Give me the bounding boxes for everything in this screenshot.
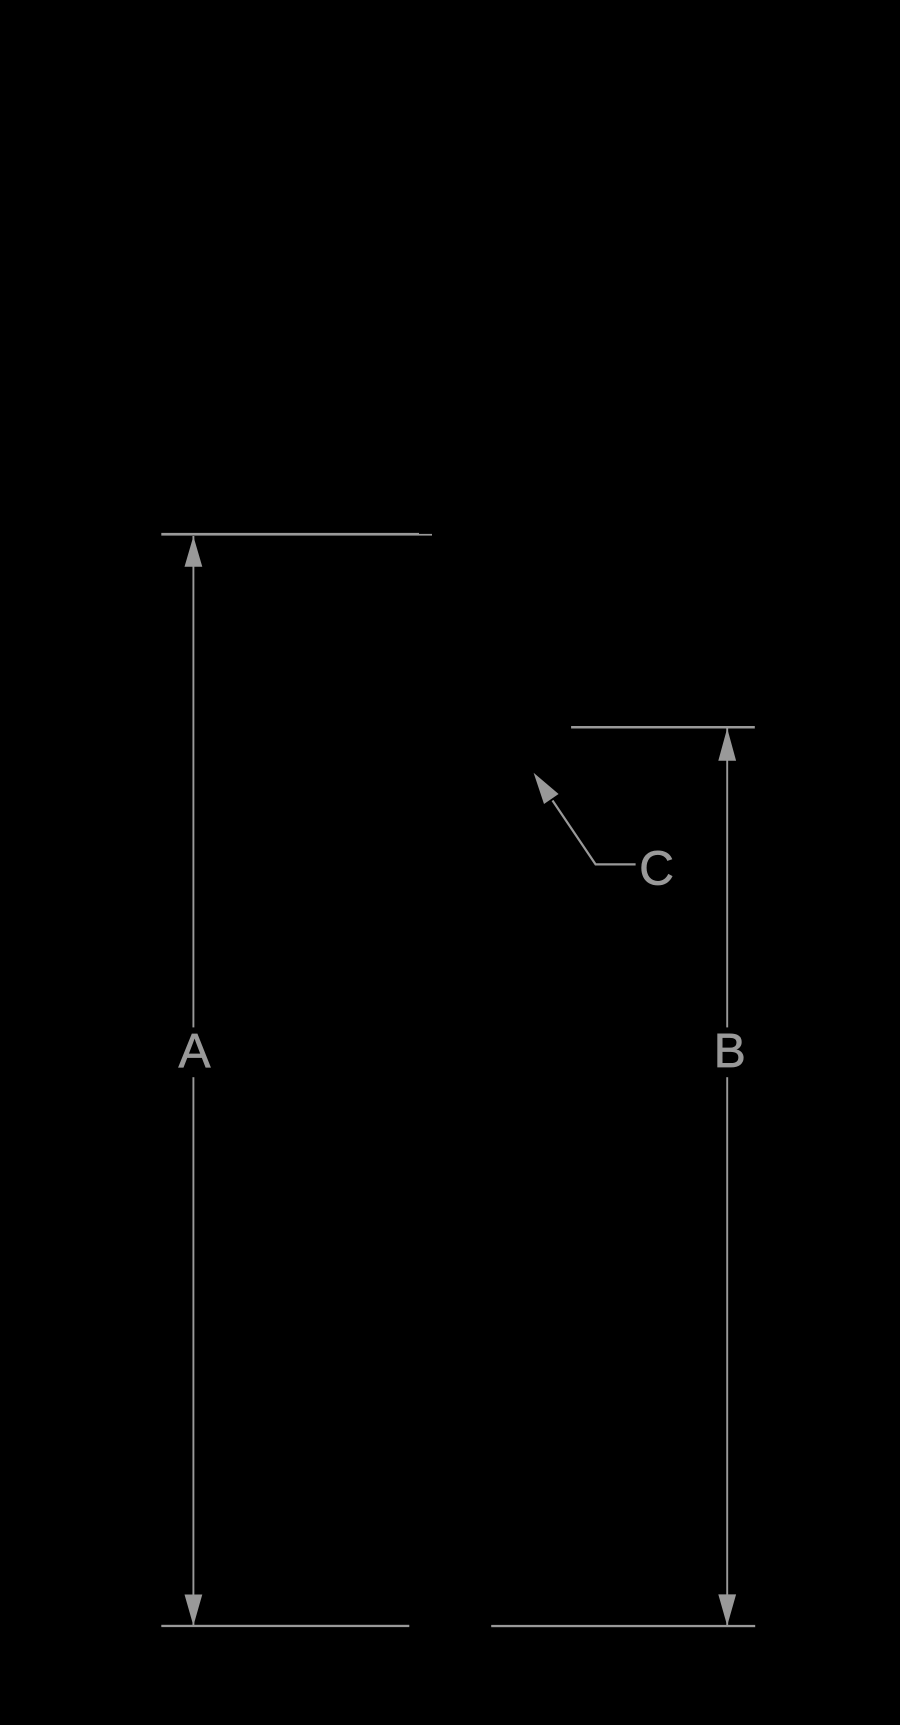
arrowhead B top	[718, 728, 736, 760]
extension line bottom right	[491, 1625, 755, 1627]
dimension line A upper segment	[192, 536, 194, 1027]
dimension line B lower segment	[726, 1077, 728, 1626]
svg-text:C: C	[639, 842, 674, 895]
svg-text:B: B	[714, 1025, 746, 1078]
extension line B upper reference	[571, 726, 755, 729]
extension line top (A upper reference)	[161, 533, 419, 536]
svg-text:A: A	[178, 1025, 210, 1078]
arrowhead A top	[185, 536, 203, 567]
leader arrowhead C	[534, 773, 559, 804]
leader line C shaft	[553, 801, 636, 865]
extension line bottom left	[161, 1625, 409, 1627]
dimension line B upper segment	[726, 729, 728, 1028]
extension line top tail	[419, 534, 432, 536]
dimension line A lower segment	[192, 1077, 194, 1626]
arrowhead A bottom	[185, 1595, 203, 1626]
arrowhead B bottom	[718, 1594, 736, 1625]
